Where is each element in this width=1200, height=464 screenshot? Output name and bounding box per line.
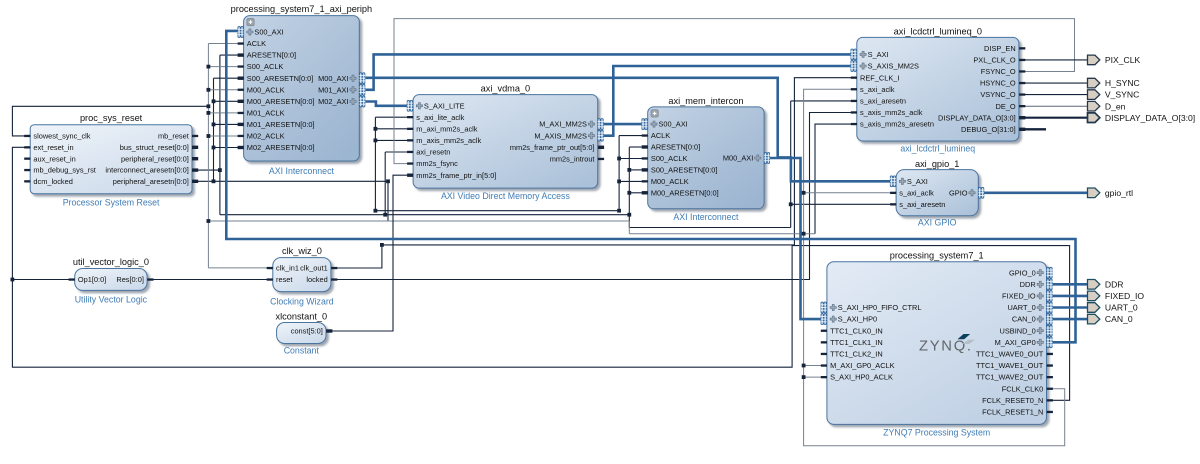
wire s_axi_lite_aclk branch — [375, 116, 407, 118]
pin tick proc_sys_reset in — [24, 135, 30, 137]
wire ACLK branch — [208, 43, 238, 45]
wire FCLK_CLK0 vertical x=208.4 (clock column) — [207, 44, 209, 268]
svg-text:S_AXIS_MM2S: S_AXIS_MM2S — [868, 62, 919, 71]
svg-text:axi_lcdctrl_lumineq_0: axi_lcdctrl_lumineq_0 — [894, 26, 982, 36]
svg-text:FIXED_IO: FIXED_IO — [1002, 292, 1036, 301]
svg-text:dcm_locked: dcm_locked — [33, 177, 72, 186]
svg-text:DDR: DDR — [1020, 280, 1036, 289]
wire clock run y=210.7 — [375, 210, 619, 212]
svg-text:axi_vdma_0: axi_vdma_0 — [481, 83, 531, 93]
interface stub S_AXIS_MM2S (lcdctrl) — [851, 61, 857, 72]
svg-text:DDR: DDR — [1105, 279, 1124, 289]
svg-text:Clocking Wizard: Clocking Wizard — [270, 297, 334, 307]
svg-text:s_axi_aresetn: s_axi_aresetn — [860, 97, 906, 106]
svg-text:S_AXI: S_AXI — [868, 50, 889, 59]
svg-text:util_vector_logic_0: util_vector_logic_0 — [73, 257, 149, 267]
block proc_sys_reset (Processor System Reset) — [30, 113, 192, 208]
pin tick zynq out — [1047, 399, 1053, 401]
pin tick vdma in — [407, 174, 413, 177]
svg-text:M00_ACLK: M00_ACLK — [247, 85, 285, 94]
svg-text:GPIO_0: GPIO_0 — [1009, 268, 1036, 277]
pin tick lcdctrl out — [1019, 59, 1025, 61]
svg-text:FCLK_RESET1_N: FCLK_RESET1_N — [982, 408, 1043, 417]
pin tick util in — [69, 278, 75, 280]
interface stub S00_AXI (mem_intercon) — [642, 119, 648, 130]
output port DDR — [1088, 279, 1124, 289]
svg-text:TTC1_CLK2_IN: TTC1_CLK2_IN — [830, 350, 883, 359]
pin tick periph — [238, 42, 244, 44]
junction clk_out1 net — [380, 243, 384, 247]
pin tick zynq in — [821, 353, 827, 355]
wire clock run y=221.0 — [208, 220, 629, 222]
junction m_axis_mm2s_aclk — [374, 139, 378, 143]
junction M00_ACLK — [207, 88, 211, 92]
pin tick proc_sys_reset out — [192, 168, 198, 171]
svg-text:M01_ARESETN[0:0]: M01_ARESETN[0:0] — [247, 120, 315, 129]
svg-text:M_AXI_GP0: M_AXI_GP0 — [995, 338, 1036, 347]
output port PIX_CLK — [1088, 55, 1141, 65]
svg-text:mm2s_frame_ptr_in[5:0]: mm2s_frame_ptr_in[5:0] — [416, 171, 496, 180]
wire DDR to port — [1053, 283, 1088, 286]
wire FCLK_CLK0 trunk (ZYNQ loop) — [804, 89, 1065, 445]
svg-text:DE_O: DE_O — [996, 102, 1016, 111]
svg-text:TTC1_CLK1_IN: TTC1_CLK1_IN — [830, 338, 883, 347]
svg-text:V_SYNC: V_SYNC — [1105, 90, 1139, 100]
pin tick proc_sys_reset out — [192, 146, 198, 149]
svg-text:clk_out1: clk_out1 — [300, 264, 328, 273]
block axi_lcdctrl_lumineq_0 — [857, 26, 1019, 153]
block util_vector_logic_0 (Utility Vector Logic) — [73, 257, 149, 305]
svg-text:FCLK_CLK0: FCLK_CLK0 — [1002, 384, 1044, 393]
output port FIXED_IO — [1088, 291, 1145, 301]
svg-text:Utility Vector Logic: Utility Vector Logic — [75, 295, 148, 305]
junction clock run — [207, 219, 211, 223]
pin tick periph — [238, 89, 244, 91]
pin tick lcdctrl in — [851, 111, 857, 113]
pin tick lcdctrl out — [1019, 70, 1025, 72]
pin tick proc_sys_reset out — [192, 157, 198, 160]
wire UART_0 to port — [1053, 306, 1088, 309]
wire m_axi_mm2s_aclk branch — [375, 128, 407, 130]
svg-text:CAN_0: CAN_0 — [1012, 315, 1036, 324]
wire gpio s_axi_aclk branch — [804, 192, 891, 194]
svg-text:s_axi_aresetn: s_axi_aresetn — [899, 200, 945, 209]
svg-text:bus_struct_reset[0:0]: bus_struct_reset[0:0] — [120, 143, 189, 152]
svg-text:mm2s_frame_ptr_out[5:0]: mm2s_frame_ptr_out[5:0] — [510, 143, 595, 152]
junction clock run C — [802, 232, 806, 236]
svg-text:S_AXI_HP0: S_AXI_HP0 — [838, 315, 877, 324]
pin tick vdma in — [407, 139, 413, 141]
pin tick lcdctrl out — [1019, 47, 1025, 49]
pin tick periph — [238, 112, 244, 114]
wire M00_AXI to gpio S_AXI — [365, 78, 890, 182]
svg-text:s_axi_aclk: s_axi_aclk — [860, 85, 895, 94]
pin tick proc_sys_reset in — [24, 146, 30, 148]
wire vdma M_AXIS_MM2S to lcdctrl S_AXIS_MM2S — [604, 66, 852, 136]
wire s_axis_mm2s_aresetn branch — [815, 124, 851, 234]
svg-text:TTC1_CLK0_IN: TTC1_CLK0_IN — [830, 326, 883, 335]
pin tick periph — [238, 100, 244, 103]
svg-text:M02_AXI: M02_AXI — [318, 97, 348, 106]
svg-text:ZYNQ.: ZYNQ. — [919, 339, 973, 355]
junction m_axi_mm2s_aclk — [374, 127, 378, 131]
svg-text:AXI Interconnect: AXI Interconnect — [269, 166, 335, 176]
pin tick clk_wiz out — [331, 278, 337, 280]
pin tick periph — [238, 53, 244, 56]
interface stub M00_AXI (periph) — [359, 73, 365, 84]
svg-text:USBIND_0: USBIND_0 — [1000, 326, 1036, 335]
svg-text:peripheral_aresetn[0:0]: peripheral_aresetn[0:0] — [113, 177, 189, 186]
svg-text:S_AXI_HP0_ACLK: S_AXI_HP0_ACLK — [830, 373, 893, 382]
wire Op1 branch of FCLK_RESET0_N — [12, 279, 69, 281]
junction M00_ACLK mem — [617, 180, 621, 184]
interface stub S_AXI (gpio) — [890, 176, 896, 187]
junction peripheral_aresetn — [212, 179, 216, 183]
pin tick zynq in — [821, 376, 827, 378]
interface stub S_AXI_HP0 (ZYNQ) — [821, 314, 827, 325]
interface stub GPIO_0 (ZYNQ) — [1047, 267, 1053, 278]
output port gpio_rtl — [1088, 188, 1134, 198]
junction axi_resetn — [383, 213, 387, 217]
pin tick proc_sys_reset out — [192, 180, 198, 183]
svg-text:s_axis_mm2s_aclk: s_axis_mm2s_aclk — [860, 108, 923, 117]
svg-text:interconnect_aresetn[0:0]: interconnect_aresetn[0:0] — [105, 166, 188, 175]
svg-text:proc_sys_reset: proc_sys_reset — [80, 113, 143, 123]
svg-text:processing_system7_1_axi_perip: processing_system7_1_axi_periph — [231, 4, 372, 14]
svg-text:axi_lcdctrl_lumineq: axi_lcdctrl_lumineq — [900, 143, 975, 153]
interface stub M_AXI_GP0 (ZYNQ) — [1047, 337, 1053, 348]
pin tick lcdctrl out — [1019, 93, 1025, 95]
pin tick zynq out — [1047, 353, 1053, 355]
svg-text:FIXED_IO: FIXED_IO — [1105, 291, 1144, 301]
svg-text:M_AXIS_MM2S: M_AXIS_MM2S — [534, 131, 587, 140]
block axi_mem_intercon (AXI Interconnect) — [648, 96, 764, 222]
pin tick zynq out — [1047, 388, 1053, 390]
svg-text:S00_ACLK: S00_ACLK — [247, 62, 284, 71]
wire Res to clk_wiz reset — [152, 279, 267, 281]
wire interconnect_aresetn vertical x=219.9 — [219, 55, 221, 215]
pin tick clk_wiz out — [331, 267, 337, 269]
wire mem aresetn vertical x=629.3 — [628, 147, 630, 228]
wire aresetn run y=227.5 — [629, 227, 790, 229]
svg-text:S00_AXI: S00_AXI — [659, 120, 688, 129]
svg-text:D_en: D_en — [1105, 101, 1126, 111]
svg-text:s_axi_lite_aclk: s_axi_lite_aclk — [416, 113, 464, 122]
interface stub M02_AXI (periph) — [359, 96, 365, 107]
svg-text:mm2s_introut: mm2s_introut — [550, 155, 595, 164]
svg-text:AXI Video Direct Memory Access: AXI Video Direct Memory Access — [441, 191, 571, 201]
wire aresetn run y=214.7 — [220, 214, 629, 216]
svg-text:S00_ARESETN[0:0]: S00_ARESETN[0:0] — [247, 74, 314, 83]
svg-text:S00_ARESETN[0:0]: S00_ARESETN[0:0] — [651, 166, 718, 175]
svg-text:M00_ARESETN[0:0]: M00_ARESETN[0:0] — [651, 188, 719, 197]
wire S00_ARESETN branch — [214, 77, 239, 79]
junction M01_ACLK — [207, 111, 211, 115]
wire M01_ACLK branch — [208, 112, 238, 114]
svg-text:UART_0: UART_0 — [1105, 303, 1138, 313]
wire M02_ARESETN branch — [214, 147, 239, 149]
wire FCLK_RESET0_N net (ext_reset_in / Op1 loop) — [12, 147, 1069, 400]
svg-text:TTC1_WAVE1_OUT: TTC1_WAVE1_OUT — [976, 361, 1044, 370]
block processing_system7_1 (ZYNQ7 Processing System) — [827, 250, 1047, 437]
pin tick lcdctrl in — [851, 88, 857, 90]
svg-text:clk_in1: clk_in1 — [276, 264, 299, 273]
wire CAN_0 to port — [1053, 318, 1088, 321]
junction clock run B — [617, 209, 621, 213]
output port H_SYNC — [1088, 78, 1140, 88]
wire S_AXI_HP0_ACLK branch — [804, 376, 822, 378]
wire mem ARESETN branch — [629, 146, 642, 148]
wire interconnect_aresetn output — [197, 169, 220, 171]
svg-text:S00_AXI: S00_AXI — [254, 28, 283, 37]
pin tick lcdctrl out — [1019, 128, 1025, 131]
svg-text:HSYNC_O: HSYNC_O — [980, 79, 1016, 88]
svg-text:PIX_CLK: PIX_CLK — [1105, 55, 1141, 65]
wire M02_AXI to vdma S_AXI_LITE — [365, 102, 407, 106]
pin tick lcdctrl out — [1019, 105, 1025, 107]
block axi_gpio_1 (AXI GPIO) — [896, 159, 978, 228]
junction clock run A — [374, 209, 378, 213]
svg-text:s_axis_mm2s_aresetn: s_axis_mm2s_aresetn — [860, 120, 934, 129]
svg-text:H_SYNC: H_SYNC — [1105, 78, 1140, 88]
pin tick mem in — [642, 191, 648, 194]
wire M02_ACLK branch — [208, 135, 238, 137]
wire M01_AXI to lcdctrl S_AXI — [365, 54, 851, 89]
svg-text:axi_mem_intercon: axi_mem_intercon — [668, 96, 743, 106]
wire lcdctrl s_axi_aresetn vertical x=790.7 — [790, 101, 792, 228]
svg-text:UART_0: UART_0 — [1007, 303, 1035, 312]
block axi_vdma_0 (AXI Video Direct Memory Access) — [413, 83, 598, 201]
block processing_system7_1_axi_periph (AXI Interconnect) — [231, 4, 372, 176]
wire DE_O to D_en — [1024, 105, 1087, 107]
junction M02_ACLK — [207, 134, 211, 138]
svg-text:M00_ACLK: M00_ACLK — [651, 177, 689, 186]
wire M01_ARESETN branch — [214, 123, 239, 125]
wire clk_out1 to REF_CLK_I — [336, 78, 851, 268]
wire M00_ARESETN branch — [214, 100, 239, 102]
junction gpio aresetn — [789, 202, 793, 206]
svg-text:M_AXI_MM2S: M_AXI_MM2S — [539, 120, 587, 129]
block xlconstant_0 (Constant) — [276, 311, 328, 355]
wire peripheral_aresetn run — [197, 180, 388, 182]
pin tick proc_sys_reset in — [24, 169, 30, 171]
svg-text:M01_ACLK: M01_ACLK — [247, 109, 285, 118]
interface stub DDR (ZYNQ) — [1047, 279, 1053, 290]
svg-text:S00_ACLK: S00_ACLK — [651, 154, 688, 163]
svg-text:xlconstant_0: xlconstant_0 — [276, 311, 328, 321]
interface stub UART_0 (ZYNQ) — [1047, 302, 1053, 313]
svg-text:DISPLAY_DATA_O[3:0]: DISPLAY_DATA_O[3:0] — [938, 113, 1016, 122]
svg-text:mb_reset: mb_reset — [158, 132, 189, 141]
output port D_en — [1088, 101, 1126, 111]
interface stub M01_AXI (periph) — [359, 84, 365, 95]
wire vdma clock vertical x=375.4 — [374, 117, 376, 211]
svg-text:aux_reset_in: aux_reset_in — [33, 154, 75, 163]
svg-text:locked: locked — [306, 275, 327, 284]
pin tick mem in — [642, 157, 648, 159]
svg-text:reset: reset — [276, 275, 292, 284]
pin tick gpio in — [890, 192, 896, 194]
svg-text:ACLK: ACLK — [247, 39, 266, 48]
wire aresetn vertical distribution at x=388 — [387, 181, 389, 221]
pin tick periph — [238, 77, 244, 80]
pin tick lcdctrl out — [1019, 82, 1025, 84]
pin tick zynq out — [1047, 411, 1053, 413]
interface stub S_AXI (lcdctrl) — [851, 49, 857, 60]
svg-text:DISPLAY_DATA_O[3:0]: DISPLAY_DATA_O[3:0] — [1105, 113, 1195, 123]
pin tick mem in — [642, 180, 648, 182]
pin tick periph — [238, 65, 244, 67]
svg-text:M_AXI_GP0_ACLK: M_AXI_GP0_ACLK — [830, 361, 895, 370]
pin tick mem in — [642, 145, 648, 148]
svg-text:ZYNQ7 Processing System: ZYNQ7 Processing System — [883, 428, 990, 438]
interface stub M_AXIS_MM2S (vdma) — [598, 130, 604, 141]
interface stub FIXED_IO (ZYNQ) — [1047, 291, 1053, 302]
wire mem M00_ACLK branch — [619, 180, 642, 182]
svg-text:mb_debug_sys_rst: mb_debug_sys_rst — [33, 166, 95, 175]
pin tick vdma in — [407, 128, 413, 130]
wire mem ACLK branch — [619, 135, 642, 137]
junction S_AXI_HP0_ACLK — [802, 375, 806, 379]
svg-text:Res[0:0]: Res[0:0] — [116, 275, 144, 284]
svg-text:Constant: Constant — [284, 345, 320, 355]
pin tick util out — [147, 278, 153, 280]
pin tick vdma in — [407, 151, 413, 153]
svg-text:ARESETN[0:0]: ARESETN[0:0] — [247, 51, 296, 60]
pin tick lcdctrl in — [851, 100, 857, 102]
pin tick lcdctrl out — [1019, 116, 1025, 119]
wire mem M00_ARESETN branch — [629, 192, 642, 194]
pin tick periph — [238, 135, 244, 137]
pin tick clk_wiz in — [267, 278, 273, 280]
wire ARESETN branch — [220, 54, 238, 56]
svg-text:axi_gpio_1: axi_gpio_1 — [915, 159, 959, 169]
pin tick periph — [238, 146, 244, 149]
wire vdma M_AXI_MM2S to mem S00_AXI — [604, 123, 643, 126]
svg-text:gpio_rtl: gpio_rtl — [1105, 188, 1133, 198]
svg-text:VSYNC_O: VSYNC_O — [980, 90, 1016, 99]
svg-text:const[5:0]: const[5:0] — [291, 327, 323, 336]
svg-text:AXI GPIO: AXI GPIO — [918, 218, 957, 228]
wire M00_ACLK branch — [208, 89, 238, 91]
pin tick xlconstant out — [326, 329, 332, 332]
wire mem S00_ACLK branch — [619, 158, 642, 160]
svg-text:M02_ACLK: M02_ACLK — [247, 132, 285, 141]
svg-text:AXI Interconnect: AXI Interconnect — [673, 212, 739, 222]
wire M_AXI_GP0 to S00_AXI (main AXI loop) — [226, 31, 1075, 342]
junction S00_ACLK — [207, 65, 211, 69]
svg-text:FSYNC_O: FSYNC_O — [981, 67, 1016, 76]
junction interconnect_aresetn — [218, 168, 222, 172]
svg-text:DEBUG_O[31:0]: DEBUG_O[31:0] — [961, 125, 1016, 134]
svg-text:S_AXI_HP0_FIFO_CTRL: S_AXI_HP0_FIFO_CTRL — [838, 303, 922, 312]
junction gpio aclk — [802, 191, 806, 195]
pin tick mem in — [642, 168, 648, 171]
wire DEBUG_O stub — [1020, 128, 1047, 130]
svg-text:TTC1_WAVE2_OUT: TTC1_WAVE2_OUT — [976, 373, 1044, 382]
svg-text:Processor System Reset: Processor System Reset — [63, 197, 160, 207]
pin tick lcdctrl in — [851, 77, 857, 79]
wire lcdctrl s_axi_aresetn branch — [791, 100, 852, 102]
svg-text:Op1[0:0]: Op1[0:0] — [78, 275, 106, 284]
wire HSYNC_O to H_SYNC — [1024, 82, 1087, 84]
wire clk_in1 feed — [208, 267, 267, 269]
junction Op1 branch — [11, 278, 15, 282]
junction S00_ACLK mem — [617, 157, 621, 161]
wire PXL_CLK_O to PIX_CLK — [1024, 59, 1087, 61]
pin tick vdma out — [598, 158, 604, 160]
wire gpio s_axi_aresetn branch — [791, 203, 891, 205]
interface stub S00_AXI (periph) — [238, 27, 244, 38]
svg-text:m_axi_mm2s_aclk: m_axi_mm2s_aclk — [416, 124, 478, 133]
wire periph aresetn vertical x=213.5 — [213, 78, 215, 181]
svg-text:GPIO: GPIO — [949, 188, 968, 197]
svg-text:ARESETN[0:0]: ARESETN[0:0] — [651, 143, 700, 152]
svg-text:S_AXI: S_AXI — [907, 177, 928, 186]
svg-text:REF_CLK_I: REF_CLK_I — [860, 73, 899, 82]
pin tick clk_wiz in — [267, 267, 273, 269]
svg-text:M01_AXI: M01_AXI — [318, 85, 348, 94]
output port V_SYNC — [1088, 90, 1140, 100]
interface stub S_AXI_LITE (vdma) — [407, 100, 413, 111]
wire mm2s_frame_ptr net — [331, 175, 407, 331]
svg-text:peripheral_reset[0:0]: peripheral_reset[0:0] — [121, 154, 189, 163]
svg-text:slowest_sync_clk: slowest_sync_clk — [33, 132, 90, 141]
wire DISPLAY_DATA_O bus to port — [1024, 117, 1087, 119]
svg-text:PXL_CLK_O: PXL_CLK_O — [973, 56, 1016, 65]
junction M00_ARESETN — [212, 99, 216, 103]
pin tick zynq out — [1047, 364, 1053, 366]
svg-text:CAN_0: CAN_0 — [1105, 314, 1133, 324]
svg-text:processing_system7_1: processing_system7_1 — [890, 250, 984, 260]
svg-text:TTC1_WAVE0_OUT: TTC1_WAVE0_OUT — [976, 350, 1044, 359]
output port DISPLAY_DATA_O[3:0] — [1088, 113, 1196, 123]
svg-text:m_axis_mm2s_aclk: m_axis_mm2s_aclk — [416, 136, 481, 145]
pin tick proc_sys_reset out — [192, 135, 198, 137]
wire FSYNC_O to mm2s_fsync loop — [394, 19, 1075, 164]
pin tick gpio in — [890, 203, 896, 205]
junction M01_ARESETN — [212, 123, 216, 127]
junction M02_ARESETN — [212, 146, 216, 150]
wire M_AXI_GP0_ACLK branch — [804, 365, 822, 367]
output port CAN_0 — [1088, 314, 1133, 324]
wire axi_resetn branch — [385, 152, 408, 215]
pin tick periph — [238, 123, 244, 126]
pin tick vdma in — [407, 162, 413, 164]
interface stub USBIND_0 (ZYNQ) — [1047, 325, 1053, 336]
pin tick vdma out — [598, 146, 604, 149]
svg-text:FCLK_RESET0_N: FCLK_RESET0_N — [982, 396, 1043, 405]
svg-text:M00_AXI: M00_AXI — [723, 154, 753, 163]
output port UART_0 — [1088, 303, 1138, 313]
junction peripheral_aresetn east — [386, 179, 390, 183]
svg-text:M00_ARESETN[0:0]: M00_ARESETN[0:0] — [247, 97, 315, 106]
pin tick mem in — [642, 134, 648, 136]
junction M_AXI_GP0_ACLK — [802, 364, 806, 368]
svg-text:s_axi_aclk: s_axi_aclk — [899, 188, 934, 197]
wire locked output run to s_axis_mm2s_aclk riser — [336, 113, 851, 280]
svg-text:ext_reset_in: ext_reset_in — [33, 143, 73, 152]
wire clock jog x=629.3 — [628, 221, 630, 234]
pin tick zynq in — [821, 364, 827, 366]
svg-text:mm2s_fsync: mm2s_fsync — [416, 159, 458, 168]
svg-text:M02_ARESETN[0:0]: M02_ARESETN[0:0] — [247, 143, 315, 152]
pin tick proc_sys_reset in — [24, 180, 30, 182]
wire mem S00_ARESETN branch — [629, 169, 642, 171]
svg-text:S_AXI_LITE: S_AXI_LITE — [424, 101, 465, 110]
wire VSYNC_O to V_SYNC — [1024, 94, 1087, 96]
block clk_wiz_0 (Clocking Wizard) — [270, 246, 334, 307]
